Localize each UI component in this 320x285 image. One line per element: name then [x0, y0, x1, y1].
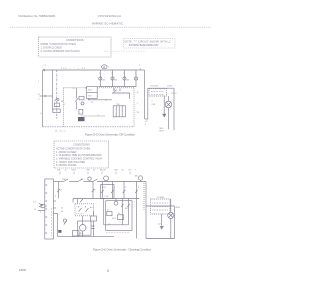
svg-text:2: 2 [139, 65, 140, 67]
wire rectifier feed [163, 96, 165, 114]
switch S9 blade [64, 222, 67, 225]
contact c3a [121, 204, 124, 207]
svg-text:1: 1 [64, 104, 65, 106]
svg-text:EOC: EOC [88, 89, 93, 91]
terminal row B [153, 206, 169, 208]
svg-text:WIRING SC-HEMATIC: WIRING SC-HEMATIC [92, 21, 124, 25]
wire branch b0 [58, 182, 60, 199]
switch S1 blade [75, 98, 78, 101]
wire s6 feed [93, 211, 95, 216]
wire branch b2 [112, 182, 114, 199]
terminal block TB4 [113, 106, 125, 117]
svg-text:25F: 25F [62, 179, 66, 181]
svg-text:4: 4 [40, 113, 42, 115]
wire to door circuit [148, 87, 174, 89]
svg-text:L2 — N — 2: L2 — N — 2 [55, 130, 65, 132]
wire bottom rail 2 [58, 236, 115, 238]
svg-text:L2 BK: L2 BK [167, 86, 173, 88]
wire feed tick [140, 69, 142, 70]
wire motor2 feed [170, 199, 172, 212]
wire s8 link [112, 93, 130, 99]
terminal strip TB2 [45, 179, 54, 239]
wire branch c4 [128, 199, 130, 225]
contact K3a [123, 190, 126, 193]
wire s1 out [76, 102, 78, 110]
door switch posts [79, 206, 86, 208]
wire bus segment 3 [84, 181, 94, 183]
svg-text:7: 7 [135, 170, 136, 172]
wire dashed control bottom [82, 115, 106, 117]
svg-text:PS: PS [91, 102, 94, 104]
L1 tap arrow [45, 95, 47, 97]
svg-text:56: 56 [122, 170, 124, 172]
svg-text:—2—: —2— [86, 99, 91, 101]
element E1 body [99, 77, 102, 80]
wire dashed box right edge [133, 88, 135, 127]
strip tap 3 [53, 213, 58, 215]
sensor circle on bus [88, 177, 91, 180]
strip tap 1 [53, 200, 56, 202]
wire control feed [77, 199, 79, 204]
terminal TB4 pin 2 [118, 106, 120, 117]
wire hot bus [54, 181, 64, 183]
wire clock stub [105, 180, 107, 183]
note box shadow dotted line [104, 50, 146, 52]
svg-text:K1: K1 [107, 210, 109, 212]
svg-text:CPUS930SGCA: CPUS930SGCA [98, 14, 122, 18]
element E1 branch [99, 70, 101, 87]
svg-text:L2: L2 [34, 202, 37, 204]
svg-text:25: 25 [61, 208, 63, 210]
diode CR1 [162, 114, 166, 118]
svg-text:TO L2: TO L2 [171, 93, 177, 95]
svg-text:34: 34 [93, 170, 95, 172]
svg-text:RD: RD [115, 170, 119, 172]
wire dashed bottom rail [43, 126, 134, 128]
svg-text:2: 2 [120, 222, 122, 224]
svg-text:8: 8 [95, 190, 96, 192]
svg-text:TDO: TDO [116, 104, 121, 106]
thermostat TS1 body [54, 103, 59, 107]
switch S7 pivot [57, 98, 59, 100]
transformer T1 dark body [78, 117, 85, 121]
contact K3b [135, 190, 138, 193]
connector J1 body [41, 204, 45, 207]
svg-text:25K: 25K [152, 104, 156, 106]
wire lock return [174, 206, 176, 239]
wire dashed sense [143, 183, 145, 211]
wire motor feed [168, 96, 170, 101]
switch S4 blade [78, 179, 83, 182]
svg-text:K2: K2 [118, 213, 120, 215]
door switch DS1 blade [79, 208, 82, 212]
terminal row 1 [151, 91, 164, 93]
wire branch b4 [136, 182, 138, 239]
wire chassis dash-dot rail [56, 70, 58, 119]
svg-text:40: 40 [61, 211, 63, 213]
terminal row C [153, 209, 169, 211]
fuse F1 body [79, 109, 83, 114]
svg-text:1. DOOR CLOSED: 1. DOOR CLOSED [41, 46, 62, 49]
fuse F2 body [73, 231, 80, 237]
contact K2b [111, 190, 114, 193]
svg-text:Publication No. 5995424281: Publication No. 5995424281 [19, 14, 56, 18]
strip inner dotted column [50, 208, 52, 236]
svg-text:TO MDL: TO MDL [157, 197, 166, 199]
wire J1 lead [45, 205, 47, 207]
svg-text:N: N [34, 209, 36, 211]
svg-text:3: 3 [125, 187, 126, 189]
svg-text:BL-W: BL-W [100, 170, 106, 172]
s6 tick marks [92, 226, 95, 229]
svg-text:2-: 2- [98, 115, 100, 117]
svg-text:NOTE: “**” CIRCUIT SHOWN WITH: NOTE: “**” CIRCUIT SHOWN WITH L2 [125, 41, 172, 44]
strip inner ticks [45, 185, 47, 233]
element E2 branch [112, 70, 114, 87]
control box divider [87, 92, 98, 94]
thermostat TS2 body [53, 109, 60, 113]
wire J2 lead [38, 210, 45, 212]
wire fan return [82, 231, 84, 237]
svg-text:E65B: E65B [19, 268, 26, 272]
svg-text:15: 15 [73, 88, 75, 90]
svg-text:MDL: MDL [79, 233, 83, 235]
svg-text:25: 25 [85, 88, 87, 90]
svg-text:RLY: RLY [88, 96, 92, 98]
switch S8 posts [114, 88, 120, 91]
motor M1 cross [166, 102, 170, 106]
terminal TB4 pin 1 [115, 106, 117, 117]
svg-text:12: 12 [65, 170, 67, 172]
wire right rail [145, 182, 147, 239]
svg-text:BR: BR [125, 208, 128, 210]
svg-text:2: 2 [99, 73, 100, 75]
motor M2 body [168, 212, 174, 218]
svg-text:2: 2 [55, 196, 57, 198]
wire branch c3 [121, 199, 123, 225]
door switch DS2 blade [86, 208, 89, 212]
wire dashed box top edge [64, 87, 135, 89]
wire mid rail [73, 198, 139, 200]
svg-text:2A: 2A [102, 78, 105, 81]
terminal row A [153, 202, 169, 204]
blower box [78, 221, 91, 235]
svg-text:2A: 2A [115, 78, 118, 81]
wire right hook [145, 118, 149, 120]
svg-text:L1: L1 [108, 224, 110, 226]
connector J1 arrow [39, 203, 43, 206]
element E3 branch [124, 70, 126, 87]
switch S7 blade [55, 98, 58, 101]
svg-text:CONDITIONS: CONDITIONS [66, 38, 84, 42]
element E4 body [134, 77, 137, 80]
svg-text:2. CLOCK APPEARS ‘DAY/CLOCK’: 2. CLOCK APPEARS ‘DAY/CLOCK’ [41, 50, 81, 53]
element E4 branch [135, 70, 137, 87]
fan motor FM1 [79, 225, 86, 232]
switch S4b blade [93, 179, 97, 181]
wire lower link [89, 99, 113, 100]
wire branch b5 [92, 182, 94, 199]
svg-text:EOC: EOC [102, 187, 107, 189]
switch S8 blade [114, 90, 117, 93]
wire left rail 2 [52, 70, 54, 111]
switch box S6 [91, 216, 97, 221]
svg-text:2-: 2- [38, 99, 40, 101]
svg-text:OR: OR [86, 170, 90, 172]
svg-text:NORM. CONDITION OF OVEN:: NORM. CONDITION OF OVEN: [41, 43, 77, 46]
svg-text:2: 2 [38, 81, 39, 83]
svg-text:M: M [137, 92, 139, 94]
svg-text:2: 2 [56, 118, 57, 120]
wire right drop [144, 70, 146, 119]
svg-text:Figure D-5 Oven Schematic ‘Off: Figure D-5 Oven Schematic ‘Off’ Conditio… [85, 133, 135, 137]
eoc2 bottom dotted row [106, 232, 130, 234]
terminal block TB3 [151, 199, 171, 214]
wire motor return [168, 108, 170, 130]
wire s6 return [93, 221, 95, 237]
svg-text:TO DLB: TO DLB [150, 85, 158, 87]
element E3 body [123, 77, 126, 80]
control box EOC [87, 86, 98, 98]
svg-text:W-R: W-R [72, 170, 77, 172]
element E2 body [111, 77, 114, 80]
legend box 1 [39, 37, 112, 57]
svg-text:2: 2 [108, 67, 109, 69]
strip tap 2 [53, 207, 56, 209]
junction block dark [58, 230, 61, 233]
wire branch c2 [115, 199, 117, 202]
wire left drop TD [147, 88, 149, 119]
wire feed extension [136, 69, 144, 71]
wire left rail 1 [42, 70, 44, 127]
svg-text:CLN: CLN [105, 196, 110, 198]
control box dashed [75, 204, 94, 216]
relay coil box a [107, 212, 112, 216]
value label 40 ring [102, 65, 108, 69]
wire dashed box left edge [63, 88, 65, 127]
wire door lock line [173, 88, 175, 130]
wire L1 feed [43, 69, 136, 71]
svg-text:b: b [40, 212, 41, 214]
control box EOC2 [106, 201, 132, 231]
svg-text:25: 25 [113, 89, 115, 91]
wire branch b3 [123, 182, 125, 199]
relay coil body [79, 96, 84, 100]
svg-text:2A: 2A [127, 78, 130, 81]
svg-text:EOC: EOC [112, 218, 117, 220]
junction dot d [146, 206, 147, 207]
wire branch b1 [102, 182, 104, 199]
control row B [90, 207, 93, 209]
svg-text:5. DOOR LOCKED: 5. DOOR LOCKED [56, 164, 77, 167]
svg-text:4: 4 [145, 124, 146, 126]
header rule [10, 26, 211, 28]
svg-text:5: 5 [138, 187, 139, 189]
diode CR2 feed [161, 214, 163, 226]
svg-text:15: 15 [60, 190, 62, 192]
lamp PL1 [81, 102, 84, 105]
motor M1 body [165, 101, 172, 108]
terminal block TB1 [149, 89, 167, 96]
timer motor TM1 [138, 176, 142, 180]
svg-text:Figure D-6 Oven Schematic - Cl: Figure D-6 Oven Schematic - Cleaning Con… [93, 247, 151, 251]
svg-text:(N): (N) [135, 176, 138, 178]
svg-text:JOHNSON BAKE DRIVE 240V: JOHNSON BAKE DRIVE 240V [129, 44, 159, 47]
motor M2 cross [169, 213, 173, 217]
svg-text:GY: GY [129, 170, 133, 172]
wire timer stub [140, 180, 142, 181]
relay coil box b [118, 215, 124, 220]
wire L1 tap [40, 95, 53, 97]
junction dot lower link [106, 99, 107, 100]
wire branch c1 [103, 199, 105, 225]
wire bottom right rail [146, 238, 175, 240]
contact S5 [80, 199, 83, 202]
svg-text:MTR: MTR [160, 130, 165, 132]
svg-text:TB: TB [137, 112, 140, 114]
svg-text:25F — * — 45: 25F — * — 45 [61, 68, 86, 70]
wire fan feed [82, 216, 84, 225]
terminal TB4 pin 3 [121, 106, 123, 117]
relay K2 box [101, 185, 115, 199]
svg-text:BK: BK [58, 170, 61, 172]
switch S3 blade [64, 179, 69, 182]
control row A [77, 213, 85, 215]
svg-text:2: 2 [137, 103, 138, 105]
wire lower link [104, 224, 129, 226]
wire lock rail [146, 205, 175, 207]
svg-text:40W: 40W [175, 207, 180, 209]
switch S9 body [63, 219, 66, 222]
junction dot c [102, 198, 103, 199]
svg-text:2: 2 [111, 73, 112, 75]
contact c4a [127, 204, 130, 207]
svg-text:1: 1 [114, 187, 115, 189]
wire bus segment 4 [97, 181, 146, 183]
svg-text:D2: D2 [158, 224, 161, 226]
svg-text:6: 6 [107, 269, 109, 273]
wire left drop [57, 214, 59, 237]
contact b0 [57, 189, 60, 192]
diode CR2 [160, 226, 164, 230]
switch S1 branch [76, 88, 78, 99]
svg-text:2: 2 [152, 101, 153, 103]
legend box 2 [54, 141, 109, 168]
wire ladder bottom rail [98, 86, 136, 88]
wire feed arrow [43, 69, 45, 71]
contact b5 [92, 189, 95, 192]
svg-text:TD: TD [145, 121, 148, 123]
pilot PL2 [114, 201, 118, 205]
wire mid stub [72, 199, 74, 203]
clock motor CM1 [104, 176, 109, 181]
svg-text:2: 2 [134, 201, 135, 203]
svg-text:2: 2 [123, 73, 124, 75]
svg-text:CONDITIONS: CONDITIONS [73, 142, 90, 146]
svg-text:L1: L1 [44, 65, 46, 67]
svg-text:2: 2 [135, 73, 136, 75]
svg-text:45: 45 [81, 179, 84, 181]
header row ticks [60, 172, 130, 175]
note box [124, 39, 176, 49]
terminal row 2 [151, 93, 164, 95]
wire bus segment 2 [69, 181, 78, 183]
wire motor2 return [170, 219, 172, 239]
contact K2a [101, 190, 104, 193]
